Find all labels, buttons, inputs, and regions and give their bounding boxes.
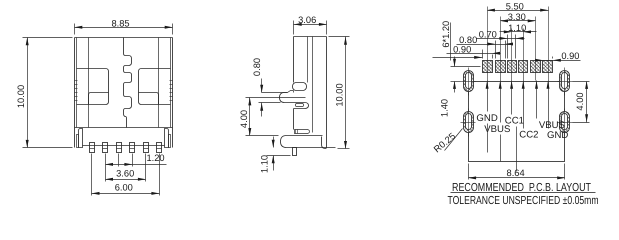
svg-text:1.40: 1.40	[440, 99, 450, 117]
dimension 0.80	[252, 58, 288, 117]
upper-right shell hole oval	[558, 68, 573, 96]
dimension 3.06 top	[294, 15, 327, 34]
front view body outline	[75, 38, 173, 148]
svg-text:GND: GND	[476, 113, 497, 124]
dimension 1.40	[440, 57, 481, 118]
pad leader lines and net labels	[476, 81, 497, 124]
dimension 0.90 right	[535, 51, 580, 62]
title RECOMMENDED P.C.B. LAYOUT	[451, 181, 596, 194]
svg-text:4.00: 4.00	[575, 92, 585, 110]
side view shell bottom hook	[322, 134, 327, 149]
svg-text:8.64: 8.64	[507, 168, 525, 178]
dimension 8.85 top	[75, 18, 173, 34]
dimension 10.00 right of side view	[329, 37, 350, 149]
label R0.25 with leader	[432, 129, 463, 155]
front view center puzzle seam	[124, 38, 132, 128]
side view solder pin	[293, 148, 297, 156]
dimension 1.10	[260, 137, 291, 174]
svg-text:0.90: 0.90	[453, 45, 471, 55]
svg-text:1.20: 1.20	[146, 153, 164, 163]
svg-text:5.50: 5.50	[506, 2, 524, 12]
front view 6 through-hole pins	[90, 143, 162, 153]
pcb pads row (6 hatched pads)	[483, 61, 553, 73]
front view edge serrations	[75, 81, 173, 101]
dimension 4.00 pcb	[573, 81, 590, 122]
dimension 0.70	[477, 30, 525, 59]
dimension 4.00 side	[239, 98, 281, 136]
side view shell	[294, 37, 327, 134]
svg-text:TOLERANCE UNSPECIFIED ±0.05mm: TOLERANCE UNSPECIFIED ±0.05mm	[448, 194, 599, 207]
dimension 10.00 left	[16, 38, 73, 148]
svg-text:CC1: CC1	[505, 116, 524, 127]
svg-text:0.80: 0.80	[252, 58, 262, 76]
svg-text:1.10: 1.10	[508, 23, 526, 33]
dimension 6.00	[92, 183, 160, 195]
dimension 0.90 left	[433, 45, 501, 59]
svg-text:10.00: 10.00	[335, 83, 345, 106]
svg-text:3.30: 3.30	[508, 12, 526, 22]
title TOLERANCE UNSPECIFIED	[448, 194, 599, 207]
label 6*1.20	[441, 21, 451, 61]
leader tails below labels	[488, 124, 517, 172]
dimension 5.50	[487, 2, 548, 12]
front view base flange	[77, 129, 171, 148]
dimension 3.30	[500, 12, 535, 22]
side view tongue contact	[280, 91, 309, 109]
svg-text:4.00: 4.00	[239, 110, 249, 128]
pin extension lines	[92, 154, 160, 196]
dimension 1.20	[105, 153, 166, 166]
dimension 3.60	[105, 168, 146, 180]
svg-text:8.85: 8.85	[111, 18, 129, 28]
svg-text:0.90: 0.90	[561, 51, 579, 61]
lower-right shell hole oval	[558, 109, 573, 137]
svg-text:GND: GND	[547, 130, 568, 141]
svg-text:0.70: 0.70	[479, 30, 497, 40]
dimension 8.64	[468, 164, 565, 180]
lower-left shell hole oval	[461, 109, 476, 137]
front view right contact window	[139, 69, 171, 105]
svg-text:6.00: 6.00	[115, 183, 133, 193]
svg-text:3.06: 3.06	[298, 15, 316, 25]
side view lower contact bend	[295, 130, 310, 134]
front view left contact window	[77, 69, 109, 105]
svg-text:CC2: CC2	[519, 130, 538, 141]
dimension 0.80 pads	[457, 35, 514, 58]
svg-text:1.10: 1.10	[260, 155, 270, 173]
dimension 1.10 pads	[500, 23, 537, 33]
svg-text:10.00: 10.00	[16, 85, 26, 108]
side view top EMI finger	[293, 83, 307, 91]
upper-left shell hole oval	[461, 68, 476, 96]
svg-text:3.60: 3.60	[116, 168, 134, 178]
pcb outline box	[469, 82, 565, 162]
svg-text:6*1.20: 6*1.20	[441, 21, 451, 48]
pad center extension lines	[488, 7, 549, 81]
side view rear bracket foot	[281, 136, 336, 148]
